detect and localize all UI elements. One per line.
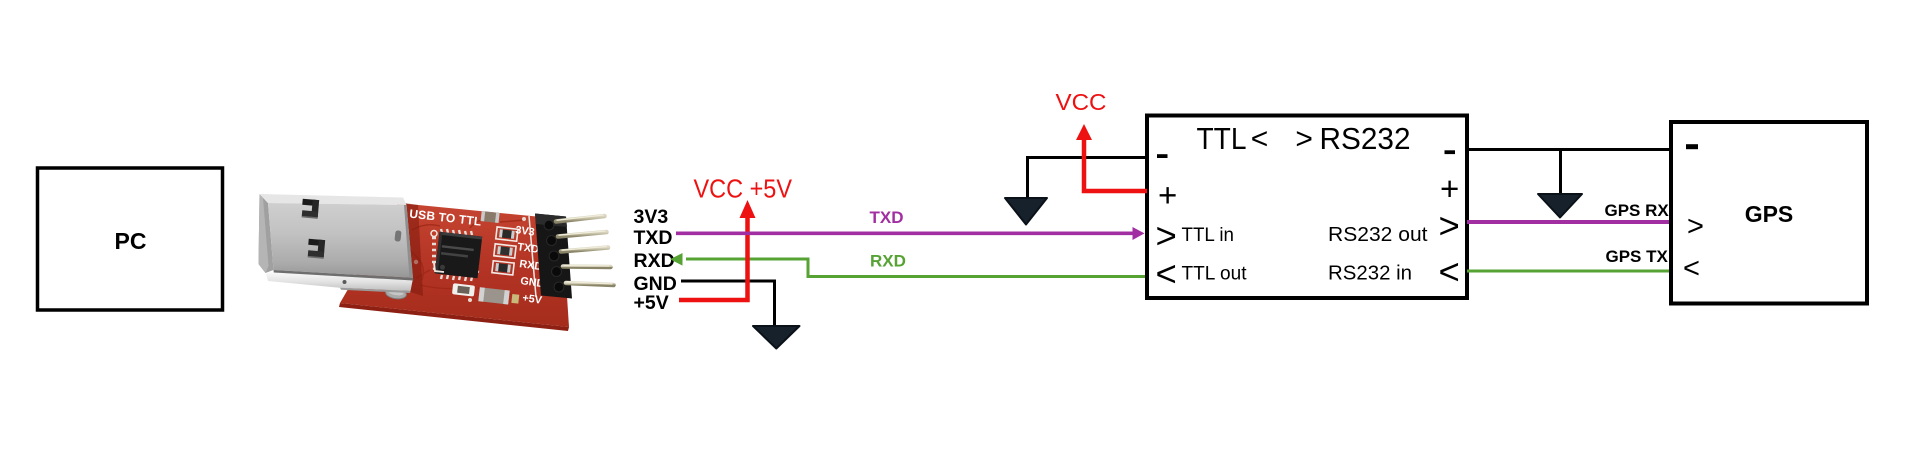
svg-text:>: > (1156, 215, 1177, 256)
USB plug metal shell: top face (260, 194, 407, 205)
crystal oscillator oval (385, 287, 407, 300)
svg-text:VCC +5V: VCC +5V (694, 176, 793, 204)
USB plug metal shell: underside (266, 270, 413, 291)
ground symbol below adapter (753, 326, 800, 349)
shell bottom dark edge (274, 270, 414, 281)
pin minus right (1445, 150, 1456, 154)
arrowhead TXD right (1133, 227, 1145, 240)
shell small notch right (394, 230, 401, 242)
wire +5V to VCC (red) (679, 217, 748, 300)
arrowhead RXD left (670, 253, 683, 266)
silkscreen line near header (529, 216, 536, 297)
USB-to-TTL adapter module (photo) (259, 194, 614, 331)
svg-text:TXD: TXD (634, 227, 673, 249)
svg-text:RXD: RXD (634, 250, 675, 272)
svg-text:>: > (1687, 211, 1704, 243)
svg-text:3V3: 3V3 (634, 206, 669, 228)
USB plug metal shell: left face (259, 194, 274, 273)
pin minus left (1157, 154, 1168, 158)
wire minus TTL to GPS (black) (1467, 148, 1671, 151)
svg-text:TTL out: TTL out (1182, 263, 1248, 285)
header pins (gold) (556, 215, 614, 285)
PCB faint traces (408, 220, 534, 295)
wire GND from adapter (681, 281, 775, 326)
SMD resistors column with silkscreen outlines (492, 227, 518, 275)
svg-text:TXD: TXD (870, 208, 904, 227)
wire minus TTL to ground (black) (1028, 158, 1148, 199)
svg-text:>: > (1439, 205, 1460, 246)
svg-text:PC: PC (115, 228, 147, 254)
wire junction to ground (black) (1559, 150, 1562, 195)
wire RS232 out to GPS RX (purple) (1467, 220, 1680, 224)
svg-text:>: > (1295, 123, 1313, 156)
shadow of shell on PCB (404, 203, 423, 296)
ground symbol between TTL and GPS (1538, 194, 1582, 218)
svg-text:GPS TX: GPS TX (1606, 247, 1669, 266)
svg-text:GPS: GPS (1745, 201, 1794, 227)
silkscreen dots (414, 217, 526, 302)
svg-text:<: < (1251, 123, 1269, 156)
svg-text:RS232 out: RS232 out (1328, 223, 1428, 246)
svg-text:RXD: RXD (870, 252, 906, 271)
svg-text:VCC: VCC (1056, 89, 1107, 115)
svg-text:TTL: TTL (1197, 121, 1247, 156)
wire RS232 in to GPS TX (green) (1467, 270, 1676, 273)
SMD bottom components (451, 283, 519, 305)
arrowhead VCC up (1076, 124, 1092, 140)
IC chip CP2102 pins (432, 229, 479, 281)
IC chip CP2102 body (435, 232, 482, 279)
header pin holes (545, 221, 563, 291)
svg-text:+: + (1158, 177, 1177, 214)
ground symbol left of TTL box (1005, 198, 1047, 225)
shell slot hole 2 (307, 239, 325, 259)
wire VCC to plus TTL (red) (1084, 139, 1147, 191)
arrowhead VCC +5V up (740, 200, 756, 218)
silkscreen pin labels on PCB (515, 224, 546, 307)
svg-text:RS232 in: RS232 in (1328, 262, 1412, 285)
header black block (535, 214, 572, 299)
SMD capacitor top (481, 211, 500, 223)
wire RXD (green) (686, 259, 1147, 277)
red PCB (340, 203, 569, 327)
svg-text:TTL in: TTL in (1182, 224, 1235, 246)
shell tiny dot (343, 280, 347, 284)
PC box (38, 168, 223, 310)
shell right dark edge (404, 205, 413, 278)
GPS box (1671, 122, 1867, 304)
svg-text:<: < (1439, 251, 1460, 292)
svg-text:<: < (1156, 253, 1177, 294)
USB plug metal shell: front face (268, 203, 413, 278)
shell slot hole 1 (301, 199, 319, 219)
PCB bottom side edge (339, 303, 569, 331)
svg-text:GPS RX: GPS RX (1605, 201, 1670, 220)
svg-text:+: + (1440, 170, 1459, 207)
svg-text:<: < (1683, 253, 1700, 285)
svg-text:RS232: RS232 (1320, 121, 1411, 156)
GPS pin minus (1686, 144, 1698, 149)
wire TXD (purple) (676, 232, 1134, 236)
TTL-RS232 converter box U1 (1147, 116, 1467, 299)
svg-text:+5V: +5V (634, 292, 669, 314)
